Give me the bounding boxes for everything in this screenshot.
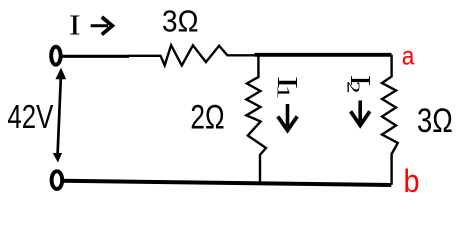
svg-text:3Ω: 3Ω	[417, 102, 453, 140]
svg-text:2: 2	[344, 81, 364, 94]
svg-text:1: 1	[274, 85, 294, 100]
svg-text:2Ω: 2Ω	[190, 98, 224, 136]
svg-text:3Ω: 3Ω	[162, 4, 199, 39]
svg-text:I: I	[69, 11, 81, 42]
svg-text:a: a	[402, 41, 415, 71]
svg-text:b: b	[404, 163, 420, 199]
svg-text:42V: 42V	[7, 99, 54, 136]
